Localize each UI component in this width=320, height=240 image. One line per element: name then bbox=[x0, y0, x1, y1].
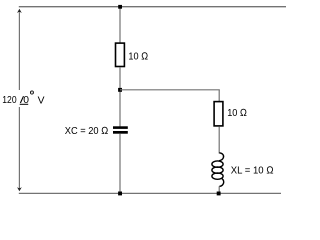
wire middle horizontal bbox=[120, 89, 220, 91]
wire capacitor to bottom wire bbox=[119, 134, 121, 194]
wire R2 to inductor bbox=[218, 127, 220, 154]
wire top horizontal bbox=[19, 6, 286, 8]
node bottom junction left bbox=[118, 192, 122, 196]
resistor R2 10 ohm bbox=[214, 102, 223, 126]
arrowhead up bbox=[17, 9, 22, 13]
capacitor XC bottom plate bbox=[113, 131, 128, 134]
svg-text:XL = 10 Ω: XL = 10 Ω bbox=[231, 166, 274, 177]
svg-text:XC = 20 Ω: XC = 20 Ω bbox=[65, 126, 109, 137]
node middle junction bbox=[118, 88, 122, 92]
svg-text:10 Ω: 10 Ω bbox=[227, 108, 247, 119]
voltage arrow shaft lower bbox=[18, 107, 20, 188]
wire right branch top (middle wire down to R2) bbox=[218, 90, 220, 102]
svg-text:V: V bbox=[38, 95, 45, 106]
svg-text:10 Ω: 10 Ω bbox=[128, 51, 148, 62]
wire left branch top (top wire to R1) bbox=[119, 7, 121, 43]
label 120&#8736;0&#176; V bbox=[2, 88, 44, 107]
node bottom junction right bbox=[217, 192, 221, 196]
voltage arrow shaft upper (source annotation) bbox=[18, 12, 20, 90]
wire R1 to middle node bbox=[119, 67, 121, 127]
arrowhead down bbox=[17, 187, 22, 191]
resistor R1 10 ohm bbox=[116, 43, 125, 66]
node junction top of R1 branch bbox=[118, 5, 122, 9]
svg-text:o: o bbox=[30, 88, 35, 97]
svg-text:120: 120 bbox=[2, 95, 17, 106]
capacitor XC top plate bbox=[113, 126, 128, 129]
wire inductor to bottom wire bbox=[218, 186, 220, 193]
inductor XL coil bbox=[212, 153, 224, 187]
wire bottom horizontal bbox=[19, 192, 281, 194]
